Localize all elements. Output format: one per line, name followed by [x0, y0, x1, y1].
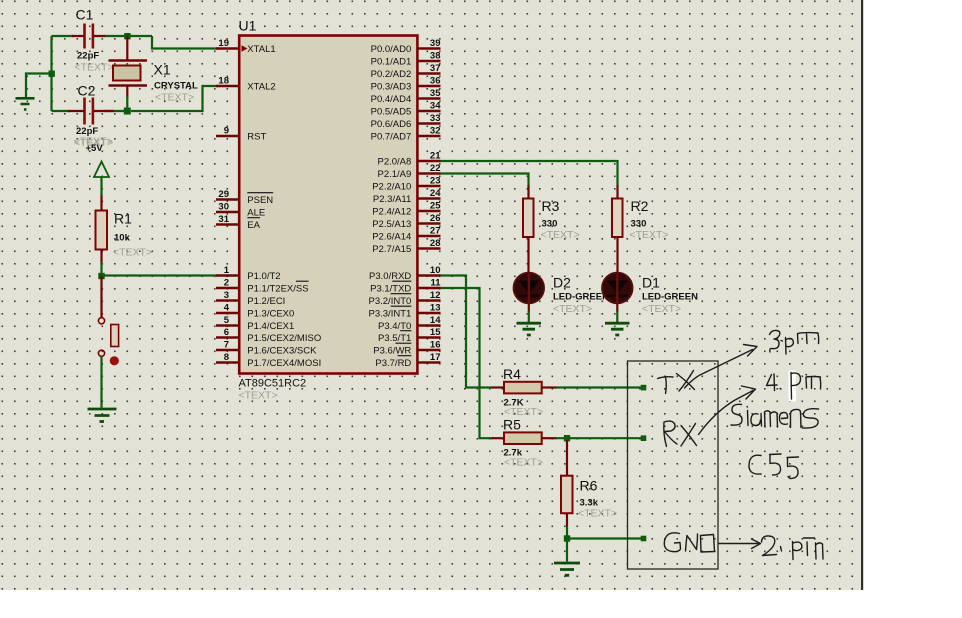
pin 1 P1.0/T2 [216, 265, 281, 282]
microcontroller U1 AT89C51RC2 [239, 18, 418, 402]
pin 37 P0.2/AD2 [371, 63, 441, 80]
wire: P2.1/A9 (pin 22) to R3 [441, 174, 529, 187]
capacitor C1 [75, 7, 114, 74]
svg-text:EA: EA [247, 220, 260, 231]
svg-text:29: 29 [218, 189, 229, 200]
svg-text:P1.2/ECI: P1.2/ECI [247, 296, 285, 307]
svg-text:22pF: 22pF [77, 51, 99, 62]
svg-text:30: 30 [218, 201, 229, 212]
pin 13 P3.3/INT1 [369, 302, 441, 319]
svg-text:ALE: ALE [247, 207, 265, 218]
resistor R2 330 [612, 198, 669, 241]
svg-text:P3.1/TXD: P3.1/TXD [370, 283, 411, 294]
svg-text:<TEXT>: <TEXT> [504, 457, 543, 469]
diode LED D2 [514, 273, 610, 315]
node: junction dot R5/R6 [564, 435, 570, 441]
svg-text:P0.3/AD3: P0.3/AD3 [371, 81, 412, 92]
svg-text:25: 25 [430, 200, 441, 211]
node: junction dot to ground branch [49, 71, 55, 77]
wire: R5 left stub [492, 437, 505, 439]
wire: +5V to R1 [100, 177, 102, 196]
ground: below D2 [517, 323, 542, 335]
svg-text:P0.0/AD0: P0.0/AD0 [371, 44, 412, 55]
svg-text:14: 14 [430, 315, 441, 326]
svg-text:1: 1 [224, 265, 230, 276]
pin 30 ALE [216, 201, 265, 218]
svg-text:34: 34 [430, 100, 441, 111]
svg-text:RST: RST [247, 131, 266, 142]
ground: below switch [88, 409, 117, 422]
svg-text:P3.3/INT1: P3.3/INT1 [369, 308, 412, 319]
svg-text:9: 9 [224, 125, 229, 136]
wire: R4 to TX terminal [556, 386, 642, 388]
svg-text:CRYSTAL: CRYSTAL [154, 81, 198, 92]
wire: C1 red pin stubs [72, 35, 105, 37]
svg-text:P2.7/A15: P2.7/A15 [372, 244, 411, 255]
pin 10 P3.0/RXD [369, 265, 440, 282]
svg-text:AT89C51RC2: AT89C51RC2 [239, 378, 307, 390]
pin 34 P0.5/AD5 [371, 100, 442, 117]
node: handwritten 4.Pin label [767, 373, 821, 400]
pin 27 P2.6/A14 [372, 225, 440, 242]
svg-text:<TEXT>: <TEXT> [642, 303, 681, 315]
node: junction dot at crystal bottom tap [124, 108, 131, 115]
svg-text:P2.0/A8: P2.0/A8 [377, 156, 411, 167]
pin 5 P1.4/CEX1 [216, 315, 294, 332]
pin 7 P1.6/CEX3/SCK [216, 339, 317, 356]
pin 8 P1.7/CEX4/MOSI [216, 352, 321, 369]
resistor R3 330 [523, 198, 580, 241]
svg-text:22: 22 [430, 163, 441, 174]
pin 9 RST [216, 125, 266, 142]
resistor R4 2.7K [503, 366, 543, 418]
node: handwritten Siamens label [731, 404, 819, 428]
capacitor C2 [74, 83, 113, 150]
svg-text:P1.7/CEX4/MOSI: P1.7/CEX4/MOSI [247, 358, 321, 369]
node: handwritten 3.pin label [770, 330, 819, 354]
ground: top-left ground symbol [16, 98, 35, 109]
svg-text:18: 18 [218, 75, 229, 86]
svg-text:330: 330 [542, 219, 558, 230]
node: handwritten RX label [664, 421, 697, 446]
pin 18 XTAL2 [216, 75, 276, 92]
pin 39 P0.0/AD0 [371, 38, 441, 55]
svg-text:P1.5/CEX2/MISO: P1.5/CEX2/MISO [247, 333, 321, 344]
svg-text:D2: D2 [553, 275, 571, 291]
node: junction dot at crystal top tap [124, 33, 130, 39]
svg-text:LED-GREEN: LED-GREEN [642, 292, 698, 303]
pin 33 P0.6/AD6 [371, 113, 441, 130]
svg-text:P2.1/A9: P2.1/A9 [377, 169, 411, 180]
wire: D2 cathode to ground [528, 303, 530, 312]
pin 38 P0.1/AD1 [371, 50, 441, 67]
svg-text:P0.2/AD2: P0.2/AD2 [371, 69, 412, 80]
svg-text:39: 39 [430, 38, 441, 49]
pin 22 P2.1/A9 [377, 163, 440, 180]
svg-text:R1: R1 [114, 211, 132, 227]
svg-text:24: 24 [430, 188, 441, 199]
wire: C2 red pin stubs [68, 110, 114, 112]
crystal X1 [109, 61, 199, 104]
pin 35 P0.4/AD4 [371, 88, 442, 105]
ground: below D1 [605, 323, 630, 335]
svg-text:13: 13 [430, 302, 441, 313]
svg-text:P1.4/CEX1: P1.4/CEX1 [247, 321, 294, 332]
pin 12 P3.2/INT0 [369, 290, 441, 307]
svg-text:11: 11 [430, 277, 441, 288]
svg-text:27: 27 [430, 225, 441, 236]
wire: GND node to GND terminal [567, 537, 641, 539]
svg-text:7: 7 [224, 339, 229, 350]
diode LED D1 [602, 273, 698, 315]
pin 29 PSEN [216, 189, 273, 206]
node: junction dot R1/switch/P1.0 [98, 273, 104, 279]
node: Siemens C55 connector box [628, 361, 719, 569]
svg-text:XTAL2: XTAL2 [247, 81, 275, 92]
pin 3 P1.2/ECI [216, 290, 285, 307]
pin 14 P3.4/T0 [378, 315, 441, 332]
svg-text:P1.3/CEX0: P1.3/CEX0 [247, 308, 294, 319]
wire: arrow to 2.pin [719, 539, 761, 549]
svg-text:XTAL1: XTAL1 [247, 44, 275, 55]
pin 11 P3.1/TXD [370, 277, 441, 294]
svg-text:<TEXT>: <TEXT> [630, 229, 669, 241]
wire: R6 top pin [566, 440, 568, 476]
svg-text:10k: 10k [114, 233, 131, 244]
svg-text:P0.1/AD1: P0.1/AD1 [371, 56, 412, 67]
wire: crystal X1 bottom pin [126, 86, 128, 99]
node: junction dot GND net [564, 535, 570, 541]
svg-text:<TEXT>: <TEXT> [74, 136, 113, 148]
node: RX terminal [641, 435, 647, 441]
svg-text:PSEN: PSEN [247, 195, 273, 206]
svg-text:P3.6/WR: P3.6/WR [373, 345, 411, 356]
resistor R6 3.3k [561, 476, 617, 520]
svg-text:<TEXT>: <TEXT> [578, 508, 617, 520]
svg-text:330: 330 [631, 219, 647, 230]
svg-text:C1: C1 [76, 7, 94, 23]
pin 24 P2.3/A11 [373, 188, 441, 205]
svg-text:12: 12 [430, 290, 441, 301]
svg-text:28: 28 [430, 238, 441, 249]
wire: P3.1/TXD (pin 11) to R5 [441, 288, 494, 438]
svg-text:36: 36 [430, 75, 441, 86]
svg-text:P1.6/CEX3/SCK: P1.6/CEX3/SCK [247, 345, 317, 356]
node: handwritten TX label [658, 371, 695, 394]
svg-text:5: 5 [224, 315, 230, 326]
wire: arrow to 3.pin [685, 345, 758, 389]
svg-text:R2: R2 [631, 198, 649, 214]
pin 2 P1.1/T2EX/SS [216, 277, 309, 294]
wire: left vertical C1-C2 bus [50, 36, 52, 111]
wire: P3.0/RXD (pin 10) to R4 [441, 276, 494, 388]
svg-text:31: 31 [218, 214, 229, 225]
wire: R1 bottom to node [100, 250, 102, 264]
wire: R6 bottom to GND node [566, 513, 568, 527]
wire: R2 top pin stub [616, 186, 618, 200]
wire: C1 top net to XTAL1 (pin 19) [52, 36, 219, 49]
wire: R2 to D1 [616, 237, 618, 274]
svg-text:P3.2/INT0: P3.2/INT0 [369, 296, 412, 307]
svg-text:R4: R4 [503, 366, 521, 382]
wire: crystal X1 top pin [126, 36, 128, 61]
node: handwritten 2.pin label [762, 536, 824, 560]
svg-text:P3.5/T1: P3.5/T1 [378, 333, 411, 344]
svg-text:8: 8 [224, 352, 229, 363]
svg-text:35: 35 [430, 88, 441, 99]
pin 4 P1.3/CEX0 [216, 302, 294, 319]
svg-text:LED-GREEN: LED-GREEN [553, 292, 609, 303]
wire: arrow to 4.Pin [699, 386, 756, 435]
wire: C2 bottom net to XTAL2 (pin 18) [52, 86, 219, 111]
wire: switch to ground [100, 357, 102, 408]
pin 6 P1.5/CEX2/MISO [216, 327, 321, 344]
wire: P2.0/A8 (pin 21) to R2 [441, 161, 618, 187]
svg-text:P3.7/RD: P3.7/RD [375, 358, 411, 369]
pin 28 P2.7/A15 [372, 238, 440, 255]
svg-text:P2.6/A14: P2.6/A14 [372, 231, 411, 242]
svg-text:R5: R5 [503, 417, 521, 433]
wire: GND node to ground symbol [566, 539, 568, 562]
svg-text:19: 19 [218, 38, 229, 49]
pin 25 P2.4/A12 [372, 200, 441, 217]
svg-text:16: 16 [430, 339, 441, 350]
wire: node to P1.0 (pin 1) [102, 274, 219, 276]
svg-text:P1.1/T2EX/SS: P1.1/T2EX/SS [247, 283, 308, 294]
svg-text:23: 23 [430, 175, 441, 186]
svg-text:P2.5/A13: P2.5/A13 [372, 219, 411, 230]
wire: node down to switch [100, 276, 102, 318]
svg-text:P2.4/A12: P2.4/A12 [372, 206, 411, 217]
svg-text:37: 37 [430, 63, 441, 74]
svg-text:17: 17 [430, 352, 441, 363]
svg-text:6: 6 [224, 327, 229, 338]
svg-text:P0.7/AD7: P0.7/AD7 [371, 131, 412, 142]
node: GND terminal [641, 536, 647, 542]
switch push button [98, 318, 119, 366]
pin 36 P0.3/AD3 [371, 75, 441, 92]
svg-text:P1.0/T2: P1.0/T2 [247, 271, 280, 282]
pin 19 XTAL1 [216, 38, 276, 55]
svg-text:P0.6/AD6: P0.6/AD6 [371, 119, 412, 130]
svg-text:26: 26 [430, 213, 441, 224]
svg-text:<TEXT>: <TEXT> [553, 303, 592, 315]
svg-text:33: 33 [430, 113, 441, 124]
resistor R5 2.7k [503, 417, 543, 469]
wire: R3 top pin stub [527, 186, 529, 200]
svg-text:R6: R6 [580, 478, 598, 494]
pin 23 P2.2/A10 [372, 175, 440, 192]
ground: below R6 [554, 563, 580, 575]
wire: R4 right stub [542, 386, 557, 388]
svg-text:P2.3/A11: P2.3/A11 [373, 194, 411, 205]
wire: branch to ground [26, 74, 52, 98]
pin 16 P3.6/WR [373, 339, 440, 356]
svg-text:21: 21 [430, 150, 441, 161]
svg-text:3: 3 [224, 290, 229, 301]
svg-text:P0.4/AD4: P0.4/AD4 [371, 94, 412, 105]
wire: R5 right stub [542, 437, 557, 439]
svg-text:<TEXT>: <TEXT> [155, 92, 194, 104]
svg-text:<TEXT>: <TEXT> [239, 390, 278, 402]
pin 26 P2.5/A13 [372, 213, 440, 230]
svg-text:<TEXT>: <TEXT> [113, 247, 152, 259]
pin 21 P2.0/A8 [377, 150, 441, 167]
svg-text:D1: D1 [642, 275, 660, 291]
pin 17 P3.7/RD [375, 352, 440, 369]
svg-text:U1: U1 [239, 18, 257, 34]
pin 32 P0.7/AD7 [371, 125, 441, 142]
svg-text:10: 10 [430, 265, 441, 276]
node: white patch behind 4.Pin [789, 371, 797, 402]
svg-text:R3: R3 [542, 198, 560, 214]
svg-text:P0.5/AD5: P0.5/AD5 [371, 106, 412, 117]
svg-text:4: 4 [224, 302, 230, 313]
node: handwritten C55 label [749, 454, 799, 479]
svg-text:X1: X1 [154, 62, 171, 78]
svg-text:P2.2/A10: P2.2/A10 [372, 181, 411, 192]
wire: R5 to RX terminal [556, 437, 642, 439]
svg-text:P3.0/RXD: P3.0/RXD [369, 271, 411, 282]
node: TX terminal [641, 385, 647, 391]
power +5V symbol [74, 136, 113, 178]
svg-text:2: 2 [224, 277, 229, 288]
svg-text:15: 15 [430, 327, 441, 338]
wire: R3 to D2 [527, 237, 529, 274]
svg-text:C2: C2 [78, 83, 96, 99]
svg-text:32: 32 [430, 125, 441, 136]
node: handwritten GND label [664, 533, 714, 552]
svg-text:38: 38 [430, 50, 441, 61]
wire: R4 left stub [492, 386, 505, 388]
resistor R1 10k [96, 211, 153, 259]
wire: D1 cathode to ground [616, 303, 618, 312]
svg-text:<TEXT>: <TEXT> [75, 62, 114, 74]
sheet right border line [861, 0, 863, 590]
pin 15 P3.5/T1 [378, 327, 441, 344]
pin 31 EA [216, 214, 261, 231]
svg-text:<TEXT>: <TEXT> [541, 229, 580, 241]
